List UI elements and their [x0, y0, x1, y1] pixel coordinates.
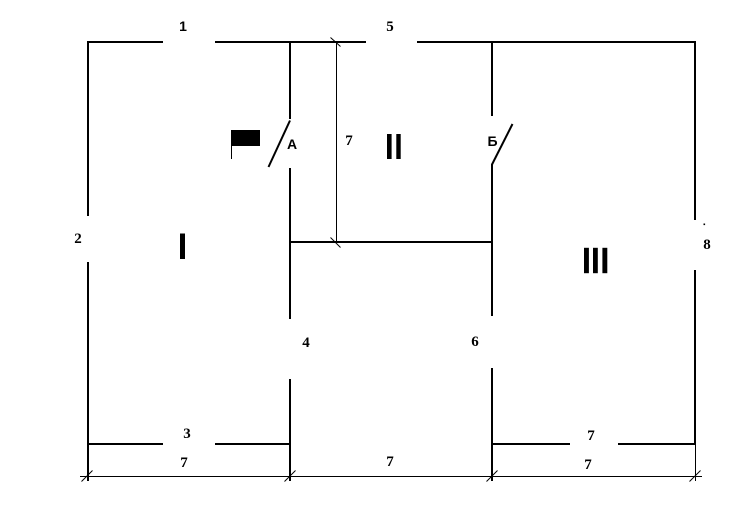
stray dot [704, 224, 706, 226]
flag marker [231, 130, 260, 159]
dimension line horizontal [80, 476, 702, 478]
svg-text:4: 4 [302, 335, 310, 351]
wire bottom wall segment d [618, 443, 696, 445]
wire partition A upper segment [289, 41, 291, 119]
wire middle wall [289, 241, 493, 243]
wire right wall lower segment [694, 270, 696, 445]
wire top wall middle segment [215, 41, 366, 43]
svg-text:7: 7 [386, 454, 394, 470]
svg-text:3: 3 [183, 426, 191, 442]
room II label [387, 134, 401, 159]
wire bottom wall segment b [215, 443, 291, 445]
extension line right [695, 445, 697, 481]
svg-text:7: 7 [584, 457, 592, 473]
wire top wall right segment [417, 41, 695, 43]
wire bottom wall segment a [87, 443, 163, 445]
dimension line vertical [336, 43, 338, 241]
wire left wall upper segment [87, 41, 89, 216]
switch A blade [269, 121, 291, 168]
svg-text:8: 8 [703, 237, 711, 253]
wire partition B lower segment [491, 368, 493, 481]
room I label [180, 234, 185, 260]
dimension tick x695 [690, 471, 701, 482]
room III label [584, 248, 607, 273]
svg-text:A: A [287, 136, 297, 152]
dimension tick x87 [82, 471, 93, 482]
wire partition B upper segment [491, 41, 493, 116]
wire partition A lower segment [289, 379, 291, 481]
svg-text:6: 6 [471, 334, 479, 350]
wire partition B middle segment [491, 164, 493, 316]
wire bottom wall segment c [491, 443, 570, 445]
svg-text:7: 7 [587, 428, 595, 444]
svg-text:7: 7 [345, 133, 353, 149]
dimension tick top [331, 38, 341, 47]
svg-text:5: 5 [386, 19, 394, 35]
svg-text:Б: Б [487, 133, 497, 149]
svg-text:1: 1 [179, 18, 187, 34]
wire right wall upper segment [694, 41, 696, 220]
switch B blade [492, 124, 513, 165]
dimension tick x492 [487, 471, 498, 482]
wire left wall lower segment [87, 262, 89, 481]
wire partition A middle segment [289, 168, 291, 319]
dimension tick middle [331, 238, 341, 248]
dimension tick x290 [285, 471, 296, 482]
svg-text:2: 2 [74, 231, 82, 247]
wire top wall left segment [87, 41, 163, 43]
svg-text:7: 7 [180, 455, 188, 471]
